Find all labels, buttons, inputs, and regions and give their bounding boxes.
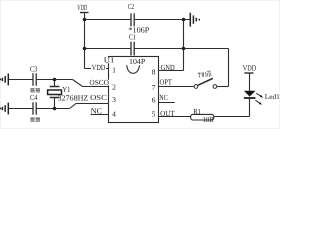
svg-text:OPT: OPT [160, 77, 173, 86]
LED Led1 triangle [244, 91, 256, 97]
wire pin6 NC stub [158, 102, 175, 104]
node junction GND-C1 [182, 47, 186, 51]
wire ground to C4 [9, 108, 33, 110]
crystal Y1 bottom plate [50, 97, 60, 99]
wire NC pin4 stub [91, 114, 109, 116]
LED cathode bar [244, 97, 256, 99]
svg-text:C1: C1 [129, 33, 136, 42]
label U1 [103, 56, 115, 65]
svg-text:6: 6 [152, 95, 156, 104]
svg-text:VDD: VDD [92, 63, 106, 72]
label reserved under C3 [30, 88, 40, 92]
resistor R1 [191, 114, 214, 120]
svg-text:VDD: VDD [77, 3, 87, 12]
switch contact circle right [213, 85, 217, 89]
wire GND net vertical [183, 20, 185, 71]
node junction C3-crystal [53, 78, 57, 82]
svg-text:8: 8 [152, 67, 156, 76]
switch blade [198, 78, 213, 85]
capacitor C3 plates [33, 73, 36, 86]
node junction GND-C2 [182, 18, 186, 22]
wire pin5 OUT to R1 [158, 116, 191, 118]
svg-text:10R: 10R [203, 115, 215, 124]
svg-text:5: 5 [152, 109, 156, 118]
left side circuitry [9, 73, 109, 115]
svg-text:7: 7 [152, 83, 156, 92]
crystal Y1 top plate [50, 86, 60, 88]
wire pin8 GND [158, 70, 184, 72]
wire pin7 OPT to switch [158, 86, 194, 88]
svg-text:C2: C2 [128, 2, 134, 11]
right side circuitry [158, 49, 254, 117]
LED arrows [255, 93, 263, 105]
svg-text:C4: C4 [30, 93, 38, 102]
switch contact circle left [194, 85, 198, 89]
svg-text:2: 2 [112, 83, 116, 92]
svg-text:32768HZ: 32768HZ [58, 93, 89, 102]
wire LED column vertical lower [249, 99, 251, 117]
label VDD pin1 [91, 63, 106, 72]
wire R1 to LED column [214, 116, 250, 118]
capacitor C2 plates [131, 13, 134, 26]
svg-text:NC: NC [159, 93, 168, 102]
ground top-right [190, 13, 199, 27]
wire C2 row right to ground [134, 19, 189, 21]
power symbol VDD top-left bar [80, 12, 89, 14]
node junction VDD-C1 [83, 47, 87, 51]
wire C1 row left [85, 48, 132, 50]
svg-text:OSCO: OSCO [89, 78, 109, 87]
wire LED column vertical upper [249, 73, 251, 91]
wire VDD vertical rail [84, 13, 86, 69]
op IC U1 body [109, 57, 159, 123]
svg-text:R1: R1 [193, 107, 201, 116]
power symbol VDD right bar [244, 72, 253, 74]
wire switch net vertical [228, 49, 230, 87]
wire ground to C3 [9, 79, 33, 81]
wire diagonal to OSCO pin2 [73, 80, 109, 87]
crystal Y1 body [48, 90, 62, 95]
svg-text:4: 4 [112, 110, 116, 119]
node junction C4-crystal [53, 107, 57, 111]
wire C3 to junction [36, 79, 72, 81]
capacitor C4 plates [33, 102, 36, 115]
label fast-test glyphs [198, 71, 212, 78]
wire C1 row right [134, 48, 228, 50]
capacitor C1 plates [131, 42, 134, 56]
ground left lower [0, 103, 8, 115]
wire crystal top stub [54, 80, 56, 87]
svg-text:NC: NC [91, 107, 103, 116]
svg-text:VDD: VDD [243, 63, 257, 72]
svg-text:104P: 104P [129, 57, 146, 66]
label reserved under C4 [30, 118, 40, 122]
svg-text:1: 1 [112, 65, 116, 74]
svg-text:GND: GND [161, 63, 175, 72]
wire switch to vertical [217, 86, 229, 88]
label OSCO pin2 [89, 78, 110, 87]
svg-text:OSC: OSC [90, 93, 107, 102]
svg-text:Led1: Led1 [265, 93, 280, 101]
ground left upper [0, 74, 8, 86]
svg-text:3: 3 [112, 95, 116, 104]
notch of U1 [127, 65, 140, 73]
wire crystal bottom stub [54, 98, 56, 109]
wire diagonal to OSC pin3 [70, 104, 109, 109]
node junction VDD-C2 [83, 18, 87, 22]
wire C4 to junction [36, 108, 69, 110]
wire VDD to pin1 [85, 68, 109, 70]
svg-text:C3: C3 [30, 64, 37, 73]
wire C2 row left [85, 19, 132, 21]
